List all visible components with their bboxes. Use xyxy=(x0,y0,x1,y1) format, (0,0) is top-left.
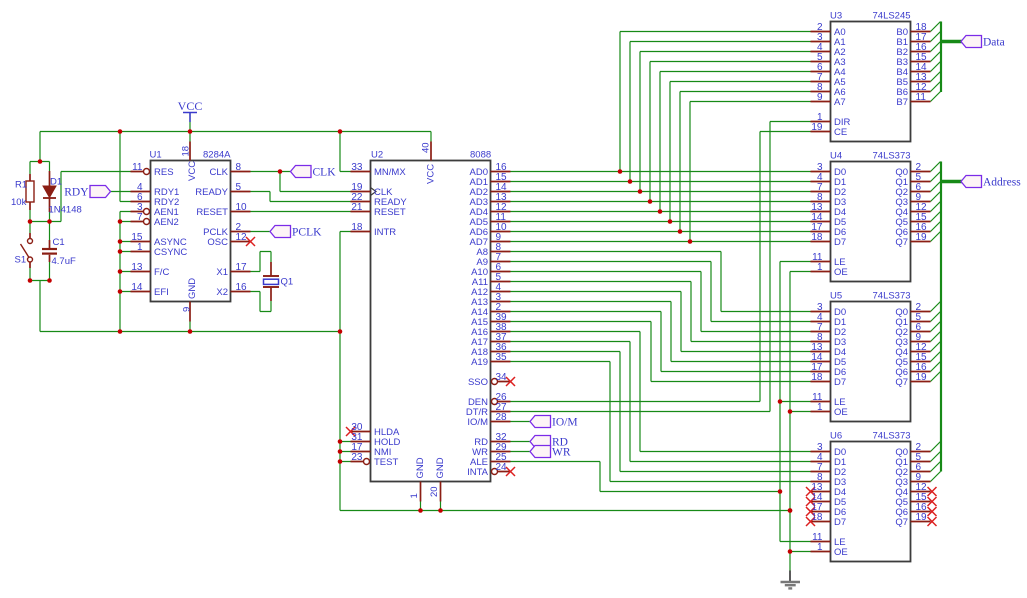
svg-text:12: 12 xyxy=(236,232,248,243)
svg-text:A7: A7 xyxy=(834,97,846,108)
svg-text:1: 1 xyxy=(137,242,143,253)
svg-text:14: 14 xyxy=(131,282,143,293)
svg-text:INTA: INTA xyxy=(467,467,489,478)
svg-text:S1: S1 xyxy=(15,255,27,266)
svg-text:18: 18 xyxy=(351,222,363,233)
svg-text:8284A: 8284A xyxy=(203,150,231,161)
svg-text:READY: READY xyxy=(195,187,228,198)
svg-text:R1: R1 xyxy=(15,180,27,191)
svg-text:Address: Address xyxy=(983,177,1021,189)
svg-text:18: 18 xyxy=(811,512,823,523)
svg-text:X1: X1 xyxy=(216,267,228,278)
svg-text:U4: U4 xyxy=(830,151,842,162)
svg-text:1: 1 xyxy=(817,542,823,553)
svg-text:SSO: SSO xyxy=(468,377,488,388)
svg-text:C1: C1 xyxy=(53,237,65,248)
svg-text:18: 18 xyxy=(811,372,823,383)
svg-text:35: 35 xyxy=(496,352,508,363)
svg-text:IO/M: IO/M xyxy=(467,417,488,428)
svg-text:7: 7 xyxy=(137,212,143,223)
svg-text:U2: U2 xyxy=(371,150,383,161)
svg-text:33: 33 xyxy=(351,162,363,173)
svg-text:19: 19 xyxy=(811,122,823,133)
svg-text:EFI: EFI xyxy=(154,287,169,298)
svg-text:D7: D7 xyxy=(834,517,846,528)
svg-text:CLK: CLK xyxy=(210,167,229,178)
svg-text:VCC: VCC xyxy=(426,164,437,184)
svg-text:10k: 10k xyxy=(11,197,27,208)
svg-text:11: 11 xyxy=(132,162,143,173)
svg-text:1: 1 xyxy=(817,262,823,273)
svg-text:1N4148: 1N4148 xyxy=(49,205,82,216)
svg-text:19: 19 xyxy=(916,512,928,523)
svg-text:13: 13 xyxy=(131,262,143,273)
svg-text:OE: OE xyxy=(834,407,848,418)
svg-text:17: 17 xyxy=(236,262,248,273)
svg-text:Q7: Q7 xyxy=(895,517,908,528)
svg-text:40: 40 xyxy=(421,142,432,153)
svg-text:18: 18 xyxy=(811,232,823,243)
svg-text:OE: OE xyxy=(834,267,848,278)
svg-text:74LS373: 74LS373 xyxy=(873,151,911,162)
svg-text:RESET: RESET xyxy=(374,207,406,218)
svg-text:18: 18 xyxy=(181,146,192,157)
svg-text:OSC: OSC xyxy=(207,237,228,248)
svg-text:CE: CE xyxy=(834,127,847,138)
svg-text:1: 1 xyxy=(817,402,823,413)
svg-text:INTR: INTR xyxy=(374,227,396,238)
svg-text:PCLK: PCLK xyxy=(292,227,322,239)
svg-text:AEN2: AEN2 xyxy=(154,217,179,228)
svg-text:Data: Data xyxy=(983,37,1005,49)
svg-text:U6: U6 xyxy=(830,431,842,442)
svg-text:34: 34 xyxy=(496,372,508,383)
svg-text:D7: D7 xyxy=(834,237,846,248)
svg-text:4.7uF: 4.7uF xyxy=(52,256,76,267)
svg-text:D1: D1 xyxy=(50,177,62,188)
svg-text:WR: WR xyxy=(552,447,571,459)
svg-text:23: 23 xyxy=(351,452,363,463)
svg-text:A19: A19 xyxy=(471,357,488,368)
svg-text:D7: D7 xyxy=(834,377,846,388)
svg-text:RESET: RESET xyxy=(196,207,228,218)
svg-text:16: 16 xyxy=(236,282,248,293)
svg-text:U1: U1 xyxy=(150,150,162,161)
svg-text:B7: B7 xyxy=(896,97,908,108)
svg-text:9: 9 xyxy=(817,92,823,103)
svg-text:21: 21 xyxy=(351,202,363,213)
svg-text:1: 1 xyxy=(409,493,420,498)
svg-text:MN/MX: MN/MX xyxy=(374,167,406,178)
svg-text:74LS373: 74LS373 xyxy=(873,431,911,442)
svg-text:24: 24 xyxy=(496,462,508,473)
svg-text:F/C: F/C xyxy=(154,267,169,278)
svg-text:VCC: VCC xyxy=(187,161,198,181)
svg-text:28: 28 xyxy=(496,412,508,423)
svg-text:U5: U5 xyxy=(830,291,842,302)
svg-text:RDY: RDY xyxy=(64,187,89,199)
svg-text:IO/M: IO/M xyxy=(552,417,578,429)
svg-text:8: 8 xyxy=(236,162,242,173)
svg-text:8088: 8088 xyxy=(470,150,491,161)
svg-text:X2: X2 xyxy=(216,287,228,298)
svg-text:11: 11 xyxy=(916,92,927,103)
svg-text:TEST: TEST xyxy=(374,457,398,468)
svg-text:19: 19 xyxy=(916,372,928,383)
svg-text:74LS245: 74LS245 xyxy=(873,11,911,22)
svg-text:VCC: VCC xyxy=(178,99,203,113)
svg-text:OE: OE xyxy=(834,547,848,558)
svg-text:U3: U3 xyxy=(830,11,842,22)
svg-text:GND: GND xyxy=(435,457,446,478)
svg-text:GND: GND xyxy=(415,457,426,478)
svg-text:19: 19 xyxy=(916,232,928,243)
svg-text:10: 10 xyxy=(236,202,248,213)
svg-text:CSYNC: CSYNC xyxy=(154,247,187,258)
svg-text:74LS373: 74LS373 xyxy=(873,291,911,302)
svg-text:RES: RES xyxy=(154,167,174,178)
svg-text:Q7: Q7 xyxy=(895,377,908,388)
svg-text:9: 9 xyxy=(182,307,193,312)
svg-text:GND: GND xyxy=(187,278,198,299)
svg-text:CLK: CLK xyxy=(313,167,337,179)
svg-text:Q7: Q7 xyxy=(895,237,908,248)
svg-text:Q1: Q1 xyxy=(281,277,294,288)
svg-text:5: 5 xyxy=(236,182,242,193)
svg-text:20: 20 xyxy=(429,486,440,497)
